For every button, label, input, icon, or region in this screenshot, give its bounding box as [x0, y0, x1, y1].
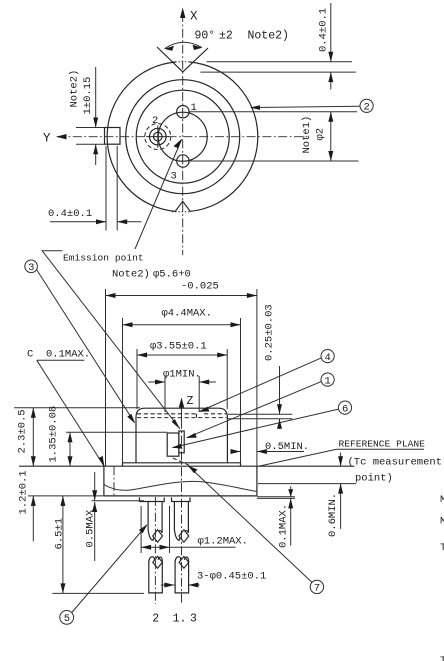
Z axis arrow [181, 400, 183, 421]
pin 2 lower segment [149, 557, 155, 562]
svg-text:φ1.2MAX.: φ1.2MAX. [198, 536, 248, 548]
X axis arrowhead [180, 8, 185, 19]
0.25 dimension arrows [279, 366, 281, 414]
svg-text:φ1MIN.: φ1MIN. [163, 369, 201, 381]
top notch V [157, 47, 208, 72]
phi5.6 extension left [105, 289, 107, 466]
phi5.6 extension right [256, 289, 258, 466]
circled 1 callout [321, 373, 334, 386]
svg-text:0.4±0.1: 0.4±0.1 [48, 208, 92, 220]
pin 2 inner circle [154, 132, 163, 141]
circle 2 [126, 80, 240, 194]
Y axis centerline [57, 136, 310, 138]
svg-text:φ2: φ2 [315, 128, 327, 141]
phi2 extension line from pin3 [190, 160, 359, 162]
svg-text:6: 6 [342, 403, 348, 415]
svg-text:6.5±1: 6.5±1 [53, 518, 65, 550]
svg-text:2.3±0.5: 2.3±0.5 [16, 409, 28, 453]
tab hidden centerline in flange [113, 466, 115, 496]
burr line 1 [257, 496, 295, 498]
pin 2 crosshair horizontal [146, 136, 169, 138]
svg-text:5: 5 [64, 613, 70, 625]
tab dimension 1±0.15 arrows [95, 67, 97, 128]
cap outline [136, 408, 227, 463]
svg-text:Note2): Note2) [248, 30, 289, 43]
svg-text:90°: 90° [195, 30, 216, 43]
svg-text:T: T [440, 655, 444, 661]
0.5MIN dimension [231, 451, 241, 453]
6.5 dimension line [62, 496, 64, 594]
pin circle [158, 112, 207, 161]
circled 3 leader to cap [37, 270, 135, 423]
phi1 extension right [198, 376, 200, 412]
bottom notch V [175, 201, 191, 212]
svg-text:C: C [27, 349, 33, 361]
bottom notch dotted opening [172, 211, 191, 213]
svg-text:Y: Y [43, 132, 51, 146]
svg-text:±2: ±2 [219, 30, 233, 43]
circle 3 [136, 90, 229, 183]
stem flange right edge [256, 466, 258, 496]
phi5.6 dimension line [106, 295, 257, 297]
pin 1/3 upper segment [174, 502, 180, 541]
emission point leader to center [135, 140, 182, 250]
phi2 extension line from pin1 [190, 111, 358, 113]
emission side-view arrowhead [172, 419, 181, 429]
Y axis arrowhead [56, 134, 67, 139]
circled 2 leader [251, 106, 360, 107]
tab extension line bottom [76, 143, 105, 145]
side view main centerline [181, 404, 183, 604]
pin 2 lower break diamond [153, 556, 163, 568]
pin 2 upper segment [148, 502, 154, 541]
circled 5 callout [60, 611, 74, 625]
pin13 shoulder [172, 497, 191, 501]
window step [196, 414, 198, 418]
pin 2 upper break diamond [153, 530, 163, 542]
circled 6 leader [173, 409, 339, 447]
90 degree angular dimension arc [165, 42, 202, 48]
pin 3 circle [177, 155, 189, 167]
phi3.55 extension left [136, 349, 138, 409]
phi3.55 extension right [226, 349, 228, 409]
reference plane line [19, 465, 354, 467]
svg-text:Note2): Note2) [112, 269, 150, 281]
svg-text:M: M [440, 516, 444, 528]
window hidden line upper [137, 413, 197, 415]
svg-text:1.: 1. [173, 613, 187, 626]
svg-text:3: 3 [28, 262, 34, 274]
svg-text:3: 3 [171, 171, 177, 183]
svg-text:0.1MAX.: 0.1MAX. [277, 504, 289, 548]
stem flange bottom [104, 495, 257, 497]
phi0.45 dimension [161, 584, 175, 586]
REFERENCE PLANE underline [337, 448, 425, 450]
circled 3 callout [25, 260, 38, 273]
flange step line right [258, 483, 356, 485]
window hidden line upper right part [204, 413, 227, 415]
dashed diagonal at stem center [173, 458, 191, 466]
svg-text:1: 1 [325, 375, 331, 387]
0.6 up arrow [340, 484, 342, 529]
svg-text:(Tc measurement: (Tc measurement [348, 457, 443, 469]
svg-text:0.4±0.1: 0.4±0.1 [318, 8, 330, 52]
phi1 dimension arrows outside [148, 381, 165, 383]
pin 1 circle [177, 106, 189, 118]
phi1.2MAX extension lines [140, 506, 142, 553]
cap brim [123, 463, 241, 466]
svg-text:1.2±0.1: 1.2±0.1 [18, 470, 30, 514]
pin 1/3 lower segment [175, 557, 181, 562]
pin 1/3 lower break diamond [179, 556, 189, 568]
svg-text:X: X [190, 10, 198, 24]
svg-text:3-φ0.45±0.1: 3-φ0.45±0.1 [197, 571, 266, 583]
svg-text:REFERENCE PLANE: REFERENCE PLANE [339, 439, 426, 450]
svg-text:0.6MIN.: 0.6MIN. [327, 493, 339, 537]
circled 2 callout [360, 99, 373, 112]
svg-text:φ4.4MAX.: φ4.4MAX. [162, 308, 212, 320]
svg-text:2: 2 [364, 102, 370, 114]
1.2 lower arrow [32, 496, 34, 541]
0.25 extension line lower [228, 418, 292, 420]
circled 5 leader [72, 525, 147, 613]
tab 0.4 extension lines down [105, 146, 107, 231]
svg-text:3: 3 [190, 613, 197, 626]
svg-text:7: 7 [314, 583, 320, 595]
stem flange left edge [103, 466, 105, 496]
0.1 down arrow [290, 486, 292, 496]
svg-text:1±0.15: 1±0.15 [82, 77, 94, 115]
pin2 centerline [154, 497, 156, 604]
svg-text:0.25±0.03: 0.25±0.03 [264, 304, 276, 361]
window hidden line lower [137, 417, 227, 419]
circled 4 leader [199, 358, 321, 412]
0.4 top right dimension arrows [330, 3, 332, 62]
pin 2 crosshair vertical [157, 125, 159, 147]
X axis centerline [182, 13, 184, 255]
top notch dotted opening [172, 61, 190, 63]
svg-text:0.1MAX.: 0.1MAX. [46, 349, 90, 361]
svg-text:Note2): Note2) [69, 70, 81, 108]
0.6 down arrow [340, 453, 342, 467]
svg-text:2: 2 [152, 115, 158, 127]
phi3.55 dimension line [137, 354, 227, 356]
0.5MAX arrows [94, 472, 96, 500]
phi4.4 extension left [122, 318, 124, 463]
flange bottom extension left [28, 495, 104, 497]
1.35 dimension line [69, 432, 71, 466]
circled 7 callout [310, 580, 323, 593]
pin 2 dashed circle [145, 124, 171, 150]
svg-text:Emission point: Emission point [63, 253, 144, 264]
circled 1 leader [187, 382, 321, 438]
pin2 shoulder [140, 497, 165, 501]
svg-text:Z: Z [187, 395, 194, 408]
REFERENCE PLANE leader [259, 449, 337, 466]
svg-text:2: 2 [152, 613, 159, 626]
outer circle (package flange, with notches) [190, 62, 258, 211]
phi1 extension left [164, 376, 166, 412]
phi4.4 dimension line [123, 324, 241, 326]
circled 4 callout [321, 350, 334, 363]
svg-text:-0.025: -0.025 [181, 281, 219, 293]
flange wavy break line [104, 481, 257, 491]
pin tip extension line [52, 592, 144, 594]
pin 2 head circle [150, 128, 167, 145]
1.35 extension line [66, 431, 167, 433]
C leader to flange corner [37, 360, 104, 466]
svg-text:Note1): Note1) [301, 116, 313, 154]
tab 0.4 dimension line with arrows [50, 221, 106, 223]
notch depth line 1 [207, 61, 353, 63]
notch depth line 2 [200, 71, 355, 73]
svg-text:4: 4 [325, 352, 331, 364]
circled 7 leader [189, 466, 312, 582]
phi4.4 extension right [240, 318, 242, 463]
svg-text:1.35±0.08: 1.35±0.08 [48, 406, 60, 463]
0.1 up arrow [290, 498, 292, 545]
svg-text:φ5.6+0: φ5.6+0 [153, 269, 191, 281]
circled 6 callout [338, 401, 351, 414]
emission point label bend [42, 251, 180, 429]
laser chip [179, 431, 184, 453]
tab extension line top [76, 127, 105, 129]
burr line 2 [257, 497, 295, 499]
submount block [167, 433, 179, 456]
pin 1/3 upper break diamond [179, 530, 189, 542]
phi2 dimension line [330, 112, 332, 161]
svg-text:M: M [440, 494, 444, 506]
svg-text:T: T [440, 542, 444, 554]
phi1.2MAX dimension line [141, 546, 235, 548]
svg-text:point): point) [355, 473, 393, 485]
svg-text:φ3.55±0.1: φ3.55±0.1 [150, 341, 207, 353]
0.25 extension line upper [228, 413, 292, 415]
C underline [37, 359, 85, 361]
cap top extension line left [14, 407, 140, 409]
2.3 dimension line [32, 408, 34, 467]
shoulder extension line [92, 500, 145, 502]
index tab [105, 128, 121, 145]
